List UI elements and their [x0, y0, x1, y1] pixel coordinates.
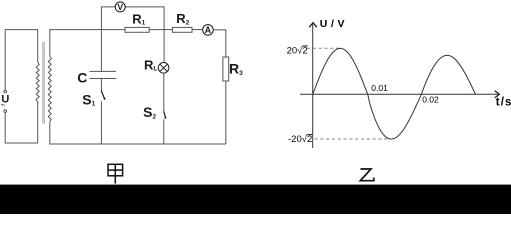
terminal a	[4, 90, 7, 93]
transformer core	[43, 42, 45, 124]
primary coil P1	[36, 62, 39, 102]
svg-text:0.01: 0.01	[371, 83, 388, 93]
sine curve	[313, 48, 476, 139]
svg-text:t/s: t/s	[496, 97, 511, 109]
wire lamp to S2	[163, 73, 165, 111]
wire secondary loop left bottom	[50, 122, 226, 144]
wire primary loop top	[5, 30, 38, 91]
lamp RL circle	[158, 63, 169, 74]
caption yi	[360, 169, 374, 181]
capacitor C	[90, 71, 117, 78]
x axis	[300, 93, 499, 95]
wire secondary loop left top	[50, 30, 125, 56]
wire C branch upper	[100, 30, 102, 72]
wire primary loop bottom	[5, 102, 38, 143]
x arrowhead	[495, 91, 500, 98]
svg-text:V: V	[117, 2, 123, 12]
wire A to right edge	[213, 30, 226, 57]
ammeter A	[203, 25, 214, 36]
caption jia	[108, 164, 123, 183]
dashed trough line	[315, 138, 390, 140]
y arrowhead	[309, 23, 316, 28]
wire R2 to A	[192, 29, 203, 31]
svg-text:A: A	[205, 25, 212, 35]
svg-text:0.02: 0.02	[422, 94, 439, 104]
voltmeter loop	[101, 7, 115, 30]
wire R3 down	[225, 81, 227, 144]
svg-text:~: ~	[1, 103, 5, 110]
terminal b	[4, 110, 7, 113]
switch S1 lower wire	[100, 101, 102, 144]
svg-text:U/V: U/V	[320, 18, 348, 30]
bottom black bar	[0, 185, 511, 214]
switch S1 blade	[101, 91, 104, 99]
svg-text:20√2: 20√2	[287, 46, 308, 57]
y axis	[312, 23, 314, 148]
wire lamp branch upper	[163, 30, 165, 63]
lamp X	[160, 64, 167, 71]
switch S2 lower wire	[163, 119, 165, 144]
resistor R1	[125, 27, 149, 32]
wire C to S1	[100, 79, 102, 91]
resistor R2	[172, 27, 192, 32]
wire R1 to R2	[149, 29, 172, 31]
resistor R3	[223, 57, 229, 81]
dashed peak line	[307, 47, 341, 49]
svg-text:C: C	[77, 70, 87, 86]
voltmeter V	[115, 2, 125, 12]
svg-text:-20√2: -20√2	[288, 134, 312, 145]
graph axes	[300, 23, 499, 148]
secondary coil S	[48, 56, 51, 122]
switch S2 blade	[164, 111, 166, 118]
